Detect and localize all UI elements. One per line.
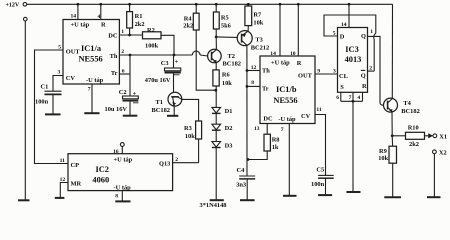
pin 5 OUT wire to IC2 CP: [35, 44, 69, 163]
svg-text:+U táp: +U táp: [271, 59, 290, 66]
transistor T2 BC182: [208, 49, 241, 67]
svg-text:R4: R4: [184, 15, 193, 22]
svg-text:CL: CL: [339, 73, 348, 80]
pin 14 IC1/a: [71, 4, 78, 19]
svg-text:4: 4: [357, 95, 360, 101]
svg-text:14: 14: [341, 22, 347, 28]
svg-text:12: 12: [251, 65, 257, 71]
svg-text:1: 1: [121, 29, 124, 35]
svg-text:Q13: Q13: [159, 160, 170, 167]
svg-text:4013: 4013: [345, 55, 362, 64]
capacitor C3 470u 16V: [145, 55, 181, 92]
diode D1: [212, 90, 233, 115]
pin 5 D feedback loop to Q-bar: [324, 15, 376, 71]
op-amp U1 IC1/a NE556 body: [63, 20, 119, 85]
pin 1 DC wire: [119, 29, 142, 35]
node R8-C4: [247, 158, 250, 161]
svg-text:D: D: [340, 33, 345, 40]
svg-text:C2: C2: [119, 89, 127, 96]
svg-text:-U táp: -U táp: [278, 116, 296, 123]
svg-text:C5: C5: [316, 166, 324, 173]
node S-R tie: [352, 100, 355, 103]
node rail-R7: [247, 3, 250, 6]
svg-text:T3: T3: [255, 37, 262, 44]
svg-text:R: R: [362, 83, 367, 90]
pin 12 MR wire to ground: [60, 177, 68, 197]
node Th-C3: [173, 54, 176, 57]
wire +12V rail: [27, 3, 393, 5]
svg-text:IC3: IC3: [345, 45, 359, 54]
resistor R3 10k: [184, 121, 202, 163]
pin 11 CV wire to C5: [315, 107, 326, 175]
ground C4: [240, 199, 255, 201]
svg-text:10k: 10k: [185, 133, 195, 140]
svg-text:NE556: NE556: [79, 55, 103, 64]
svg-text:8: 8: [115, 193, 118, 199]
pin 14 IC3: [341, 4, 349, 28]
wire X2 to ground: [433, 154, 435, 197]
ground X2: [427, 196, 441, 198]
svg-text:Q: Q: [361, 33, 366, 40]
svg-text:OUT: OUT: [66, 49, 81, 56]
svg-text:10k: 10k: [222, 80, 232, 87]
wire 0V down-lead: [24, 21, 26, 200]
svg-text:CV: CV: [301, 113, 311, 120]
svg-text:Tr: Tr: [111, 70, 118, 77]
ground IC3: [347, 191, 361, 193]
svg-text:T1: T1: [156, 99, 163, 106]
transistor T3 BC212: [237, 31, 269, 52]
svg-text:DC: DC: [263, 115, 273, 122]
svg-text:Q: Q: [361, 72, 366, 79]
wire T3 base: [216, 36, 237, 39]
node rail-14a: [77, 3, 80, 6]
pin 3 CV wire: [53, 70, 63, 91]
svg-text:2: 2: [369, 65, 372, 71]
svg-text:NE556: NE556: [273, 96, 297, 105]
ground (0V rail): [18, 199, 30, 201]
ground diode chain: [210, 199, 224, 201]
ground C2: [123, 115, 138, 117]
svg-text:S: S: [340, 84, 344, 91]
svg-text:10k: 10k: [378, 155, 388, 162]
svg-text:2k2: 2k2: [135, 21, 145, 28]
svg-text:5: 5: [333, 31, 336, 37]
svg-text:-U táp: -U táp: [114, 185, 132, 192]
resistor R9 10k: [378, 136, 396, 197]
svg-text:IC1/a: IC1/a: [81, 44, 102, 53]
pin 12 Th wire: [247, 65, 260, 71]
pin 1 Q wire to T4 base: [368, 29, 384, 105]
capacitor C1 100n: [35, 83, 62, 114]
svg-text:7: 7: [349, 95, 352, 101]
svg-text:10k: 10k: [253, 20, 263, 27]
svg-text:BC212: BC212: [251, 45, 269, 52]
svg-text:OUT: OUT: [298, 73, 313, 80]
pin 6 Tr wire: [119, 69, 130, 75]
svg-text:6: 6: [336, 95, 339, 101]
wire T3 collector down to C4: [246, 45, 248, 175]
svg-text:100n: 100n: [311, 181, 325, 188]
pin 2 Q13 wire to R3: [173, 157, 199, 163]
svg-text:X2: X2: [439, 150, 447, 157]
svg-text:BC182: BC182: [223, 61, 241, 68]
ground R9: [384, 196, 401, 198]
svg-text:1: 1: [370, 29, 373, 35]
svg-text:R8: R8: [272, 136, 280, 143]
pin 16 IC2 supply terminal: [113, 143, 124, 155]
svg-text:3*1N4148: 3*1N4148: [200, 202, 227, 208]
+12V terminal: [6, 3, 27, 9]
svg-text:470u 16V: 470u 16V: [145, 77, 171, 84]
svg-text:3: 3: [58, 70, 61, 76]
wire D3 to ground: [215, 148, 217, 200]
capacitor C2 10u 16V: [105, 55, 139, 115]
0V terminal: [24, 17, 28, 21]
wire T4 emitter: [391, 112, 393, 136]
X1 output terminal with arrow: [428, 133, 447, 140]
ground C1: [45, 113, 61, 115]
node rail-14c: [348, 3, 351, 6]
resistor R10 2k2: [392, 124, 428, 148]
node R1-DC: [128, 34, 131, 37]
svg-text:+U táp: +U táp: [71, 22, 90, 29]
svg-text:10u 16V: 10u 16V: [105, 106, 128, 113]
pin 7 IC1/a to ground: [88, 84, 92, 113]
svg-text:5: 5: [58, 44, 61, 50]
wire T1 emitter to ground: [173, 106, 175, 116]
node rail-10b: [297, 3, 300, 6]
svg-text:-U táp: -U táp: [86, 77, 104, 84]
svg-text:2k2: 2k2: [183, 23, 193, 30]
svg-text:BC182: BC182: [152, 107, 170, 114]
svg-text:R6: R6: [222, 72, 231, 79]
svg-text:Th: Th: [262, 68, 270, 75]
svg-text:R10: R10: [408, 124, 419, 131]
svg-text:100n: 100n: [35, 99, 49, 106]
node T4e-R9-R10: [391, 134, 394, 137]
svg-text:D3: D3: [225, 142, 233, 149]
wire T2 base: [200, 55, 208, 56]
node R5-T3 base: [215, 36, 218, 39]
ground IC2 pin8: [115, 200, 130, 202]
svg-text:R: R: [101, 22, 106, 29]
svg-text:IC1/b: IC1/b: [276, 85, 297, 94]
svg-text:16: 16: [113, 149, 119, 155]
wire T1 collector to R3: [182, 99, 199, 121]
svg-text:X1: X1: [439, 134, 447, 141]
node T3col-Tr: [246, 85, 249, 88]
svg-text:R3: R3: [184, 125, 192, 132]
pin 7 IC1/b to ground: [281, 124, 290, 196]
svg-text:7: 7: [281, 127, 284, 133]
svg-text:2k2: 2k2: [409, 141, 419, 148]
svg-text:Tr: Tr: [262, 85, 269, 92]
pin 2 Q-bar stub: [368, 65, 375, 71]
svg-text:R1: R1: [135, 13, 143, 20]
resistor R5 5k6: [213, 4, 231, 37]
resistor R8 1k: [248, 134, 280, 159]
wire R4 lead down to diode node: [196, 30, 216, 90]
svg-text:14: 14: [270, 51, 276, 57]
svg-text:5k6: 5k6: [221, 22, 232, 29]
resistor R6 10k: [213, 62, 232, 90]
svg-text:R5: R5: [221, 14, 229, 21]
pin 10 IC1/b: [290, 4, 298, 57]
node rail-R1: [128, 3, 131, 6]
diode D3: [212, 130, 233, 149]
wire T2 collector: [215, 37, 217, 50]
svg-text:R9: R9: [379, 148, 387, 155]
pins S 6 / 7 / R 4 tied to ground: [336, 92, 362, 101]
wire rail to T4 collector: [391, 4, 393, 98]
svg-text:R7: R7: [253, 12, 262, 19]
capacitor C4 3n3: [236, 167, 255, 199]
svg-text:D1: D1: [225, 108, 233, 115]
svg-text:+: +: [175, 59, 179, 65]
svg-text:CP: CP: [71, 162, 80, 169]
svg-text:R: R: [297, 60, 302, 67]
node T3col-Th: [246, 69, 249, 72]
svg-text:DC: DC: [108, 32, 118, 39]
pin 13 DC lead: [254, 124, 267, 135]
node Th-C2: [129, 54, 132, 57]
svg-text:4060: 4060: [92, 175, 109, 184]
svg-text:T2: T2: [228, 53, 235, 60]
X2 output terminal: [433, 150, 447, 157]
transistor T4 BC182: [384, 98, 420, 115]
svg-text:12: 12: [60, 177, 66, 183]
svg-text:IC2: IC2: [96, 165, 110, 174]
svg-text:2: 2: [175, 157, 178, 163]
svg-text:+U táp: +U táp: [114, 157, 133, 164]
node rail-4a: [99, 3, 102, 6]
svg-text:11: 11: [60, 158, 65, 164]
wire R2 to Th node: [161, 35, 174, 55]
pin 8 Tr wire: [247, 80, 260, 86]
resistor R2 100k: [143, 27, 162, 50]
diode D2: [212, 113, 233, 132]
svg-text:8: 8: [251, 80, 254, 86]
node rail-R5: [215, 3, 218, 6]
svg-text:1k: 1k: [272, 144, 279, 151]
ground MR: [55, 197, 65, 199]
node rail-R4: [195, 3, 198, 6]
svg-text:10: 10: [290, 51, 296, 57]
resistor R1 2k2: [127, 4, 145, 35]
wire S-R tie to ground: [352, 101, 354, 191]
IC2 4060 body: [68, 154, 173, 192]
node diode top: [214, 89, 217, 92]
ground IC1/b pin7: [283, 195, 297, 197]
svg-text:100k: 100k: [145, 42, 159, 49]
pin 9 OUT wire to IC3 CL: [315, 68, 338, 74]
pin 4 IC1/a: [98, 4, 101, 19]
pin 2 Th wire with hop over R4 lead: [119, 49, 200, 55]
svg-text:C3: C3: [161, 60, 169, 67]
IC3 4013 body: [338, 28, 368, 93]
svg-text:BC182: BC182: [401, 108, 419, 115]
svg-text:4: 4: [98, 14, 101, 20]
pin 14 IC1/b: [270, 4, 280, 57]
svg-text:2: 2: [121, 49, 124, 55]
resistor R4 2k2: [183, 4, 199, 30]
svg-text:13: 13: [254, 126, 260, 132]
svg-text:6: 6: [122, 69, 125, 75]
svg-text:Th: Th: [110, 53, 118, 60]
svg-text:CV: CV: [66, 75, 76, 82]
svg-text:7: 7: [88, 87, 91, 93]
resistor R7 10k: [245, 6, 264, 31]
svg-text:R2: R2: [147, 27, 155, 34]
ground C5: [318, 194, 332, 196]
svg-text:+12V: +12V: [6, 3, 20, 9]
svg-text:MR: MR: [71, 181, 82, 188]
svg-text:9: 9: [317, 68, 320, 74]
ground pin7 IC1/a: [84, 112, 99, 114]
ground T1: [167, 115, 178, 117]
svg-text:C4: C4: [237, 167, 246, 174]
svg-text:3n3: 3n3: [236, 181, 246, 188]
svg-text:C1: C1: [41, 83, 49, 90]
op-amp U2 IC1/b NE556 body: [260, 56, 315, 124]
transistor T1 BC182: [152, 92, 182, 114]
svg-text:14: 14: [71, 14, 77, 20]
svg-text:3: 3: [333, 68, 336, 74]
svg-text:D2: D2: [225, 125, 233, 132]
pin 8 IC2 to ground: [115, 191, 122, 201]
node rail-14b: [279, 3, 282, 6]
capacitor C5 100n: [311, 166, 334, 194]
svg-text:11: 11: [316, 107, 321, 113]
svg-text:T4: T4: [403, 100, 411, 107]
